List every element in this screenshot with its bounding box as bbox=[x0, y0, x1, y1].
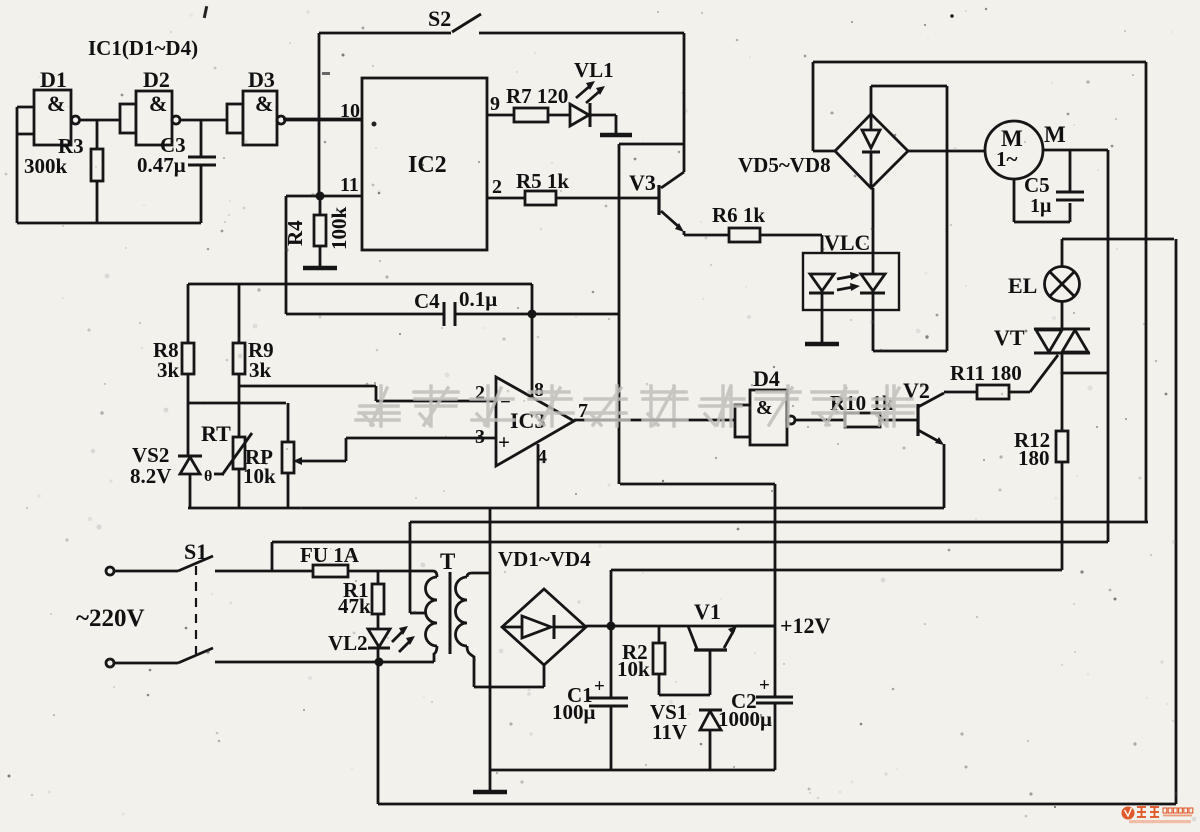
svg-text:10: 10 bbox=[340, 100, 360, 122]
svg-text:VD1~VD4: VD1~VD4 bbox=[498, 547, 591, 571]
svg-text:100k: 100k bbox=[327, 207, 351, 251]
svg-text:R11 180: R11 180 bbox=[950, 361, 1022, 385]
svg-text:C4: C4 bbox=[414, 289, 440, 313]
svg-text:1000μ: 1000μ bbox=[718, 707, 772, 731]
svg-text:R7 120: R7 120 bbox=[506, 84, 568, 108]
svg-text:0.1μ: 0.1μ bbox=[459, 287, 497, 311]
svg-text:IC1(D1~D4): IC1(D1~D4) bbox=[88, 36, 198, 60]
svg-text:+12V: +12V bbox=[780, 613, 831, 638]
svg-text:&: & bbox=[47, 91, 65, 116]
svg-text:&: & bbox=[255, 91, 273, 116]
svg-text:θ: θ bbox=[204, 468, 212, 485]
svg-text:2: 2 bbox=[492, 176, 502, 198]
svg-text:1~: 1~ bbox=[996, 147, 1018, 171]
svg-text:10k: 10k bbox=[617, 657, 650, 681]
svg-text:3k: 3k bbox=[157, 358, 180, 382]
svg-text:VT: VT bbox=[994, 325, 1025, 350]
svg-text:11: 11 bbox=[340, 174, 359, 196]
svg-text:R6 1k: R6 1k bbox=[712, 203, 765, 227]
svg-text:D2: D2 bbox=[143, 67, 170, 92]
svg-text:VLC: VLC bbox=[824, 230, 870, 255]
svg-text:FU 1A: FU 1A bbox=[300, 543, 360, 567]
svg-text:C5: C5 bbox=[1024, 173, 1050, 197]
svg-text:T: T bbox=[440, 549, 455, 574]
svg-text:+: + bbox=[759, 675, 770, 696]
svg-text:1μ: 1μ bbox=[1030, 195, 1052, 217]
svg-text:&: & bbox=[149, 91, 167, 116]
svg-text:3k: 3k bbox=[249, 358, 272, 382]
svg-text:S2: S2 bbox=[428, 6, 451, 31]
svg-text:VL2: VL2 bbox=[328, 631, 368, 655]
svg-text:11V: 11V bbox=[652, 720, 687, 744]
svg-text:M: M bbox=[1044, 122, 1066, 147]
svg-text:8.2V: 8.2V bbox=[130, 464, 171, 488]
svg-text:300k: 300k bbox=[24, 154, 68, 178]
svg-text:D1: D1 bbox=[40, 67, 67, 92]
svg-text:D3: D3 bbox=[248, 67, 275, 92]
svg-text:100μ: 100μ bbox=[552, 700, 596, 724]
svg-text:+: + bbox=[594, 676, 605, 697]
svg-text:VL1: VL1 bbox=[574, 58, 614, 82]
svg-text:10k: 10k bbox=[243, 464, 276, 488]
svg-text:9: 9 bbox=[490, 93, 500, 115]
svg-text:IC2: IC2 bbox=[408, 152, 447, 178]
svg-text:180: 180 bbox=[1018, 446, 1050, 470]
svg-text:R5 1k: R5 1k bbox=[516, 169, 569, 193]
svg-text:~220V: ~220V bbox=[76, 605, 145, 632]
svg-text:RT: RT bbox=[201, 421, 231, 446]
svg-text:EL: EL bbox=[1008, 273, 1037, 298]
svg-text:D4: D4 bbox=[753, 366, 780, 391]
svg-text:VD5~VD8: VD5~VD8 bbox=[738, 153, 831, 177]
svg-text:V3: V3 bbox=[629, 170, 656, 195]
svg-text:47k: 47k bbox=[338, 594, 371, 618]
svg-text:0.47μ: 0.47μ bbox=[137, 153, 186, 177]
svg-text:+: + bbox=[498, 430, 510, 454]
svg-text:V1: V1 bbox=[694, 599, 721, 624]
svg-text:S1: S1 bbox=[184, 539, 207, 564]
